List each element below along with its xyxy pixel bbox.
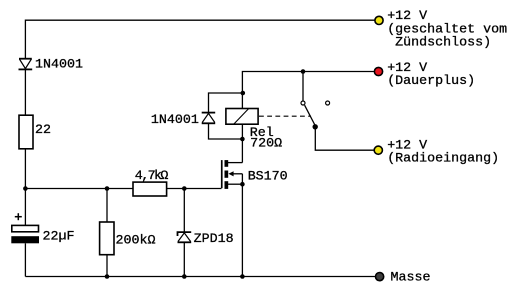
capacitor C1 22uF polarity plus	[15, 213, 22, 220]
wire R1 to node A	[24, 149, 26, 189]
node junction switch feed	[301, 69, 306, 74]
terminal Masse	[376, 273, 384, 281]
svg-text:200kΩ: 200kΩ	[116, 234, 156, 249]
zener diode D3 ZPD18	[178, 232, 192, 242]
wire ground rail	[25, 276, 375, 278]
capacitor C1 22uF plates	[11, 225, 39, 243]
transistor Q1 body arrow	[228, 171, 242, 176]
wire top rail from ignition +12V	[25, 20, 374, 58]
transistor Q1 source stub	[228, 183, 242, 185]
resistor R3 4.7k	[133, 182, 167, 196]
wire source to ground rail	[241, 184, 243, 276]
node junction gate / zener	[182, 186, 187, 191]
wire R3 to gate	[167, 188, 222, 190]
wire R2 to ground rail	[106, 255, 108, 277]
wire node row to R3	[25, 188, 133, 190]
wire switch common to Radioeingang	[315, 127, 374, 150]
relay K1 coil box	[226, 109, 258, 125]
svg-text:1N4001: 1N4001	[35, 57, 83, 72]
label +12 V Dauerplus	[387, 61, 475, 89]
svg-text:720Ω: 720Ω	[250, 136, 282, 151]
wire relay coil top to Dauerplus rail	[242, 72, 374, 109]
transistor Q1 drain stub	[228, 162, 242, 164]
node junction R2 bottom on rail	[105, 274, 110, 279]
svg-text:(Dauerplus): (Dauerplus)	[387, 74, 475, 89]
svg-text:22: 22	[35, 123, 51, 138]
dashed actuation link relay to switch	[259, 115, 311, 117]
resistor R2 200k	[100, 222, 114, 255]
diode D1 1N4001	[19, 59, 33, 70]
wire body to source	[241, 174, 243, 184]
label +12 V Radioeingang	[387, 139, 499, 167]
switch S1 relay contact	[301, 72, 330, 130]
svg-text:BS170: BS170	[248, 169, 288, 184]
wire node to R2	[106, 189, 108, 223]
wire flyback cathode to relay top node	[209, 93, 243, 113]
label +12 V geschaltet vom Zuendschloss	[387, 9, 507, 51]
terminal +12V Dauerplus	[374, 67, 382, 75]
wire node to zener D3	[183, 189, 185, 233]
wire node A to capacitor C1	[24, 189, 26, 226]
wire D1 to R1	[24, 70, 26, 115]
svg-text:(Radioeingang): (Radioeingang)	[387, 152, 499, 167]
diode D2 1N4001 flyback	[202, 113, 216, 124]
node junction relay bottom / flyback anode	[240, 137, 245, 142]
wire flyback anode branch	[209, 123, 243, 139]
wire C1 to ground rail	[24, 243, 26, 276]
wire D3 to ground rail	[183, 242, 185, 276]
terminal +12V geschaltet vom Zuendschloss	[375, 16, 383, 24]
wire relay coil bottom	[241, 124, 243, 139]
node A junction	[23, 186, 28, 191]
svg-text:22µF: 22µF	[43, 229, 75, 244]
transistor Q1 BS170 gate bar	[221, 160, 223, 188]
svg-text:4,7kΩ: 4,7kΩ	[135, 169, 169, 184]
wire drain up to relay	[241, 139, 243, 163]
node junction Q1 source on rail	[240, 274, 245, 279]
node junction D3 bottom on rail	[182, 274, 187, 279]
svg-text:1N4001: 1N4001	[151, 113, 199, 128]
node junction flyback cathode	[241, 91, 246, 96]
svg-text:Masse: Masse	[391, 271, 431, 286]
resistor R1 22	[19, 115, 33, 149]
svg-text:ZPD18: ZPD18	[194, 232, 234, 247]
svg-text:Zündschloss): Zündschloss)	[387, 36, 491, 51]
terminal +12V Radioeingang	[374, 146, 382, 154]
transistor Q1 channel segments	[225, 160, 229, 189]
node junction source	[240, 182, 245, 187]
node junction at R2 top	[105, 186, 110, 191]
